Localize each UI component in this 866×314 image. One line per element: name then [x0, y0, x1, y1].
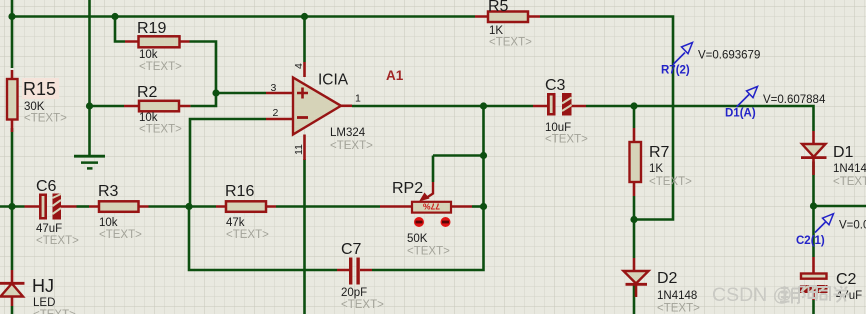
diode D2 [624, 258, 701, 314]
svg-text:<TEXT>: <TEXT> [24, 113, 67, 125]
svg-text:<TEXT>: <TEXT> [489, 37, 532, 49]
wire mid rail left [0, 205, 25, 208]
svg-text:<TEXT>: <TEXT> [649, 176, 692, 188]
svg-text:1N4148: 1N4148 [657, 290, 697, 302]
svg-text:11: 11 [293, 144, 305, 155]
wire R3 right to R16 [149, 205, 217, 208]
svg-text:47uF: 47uF [36, 223, 62, 235]
resistor R7 [630, 128, 693, 196]
svg-text:1N4148: 1N4148 [833, 163, 866, 175]
svg-text:C6: C6 [36, 178, 57, 195]
capacitor C7 [337, 241, 384, 311]
svg-text:10uF: 10uF [545, 122, 571, 134]
svg-text:<TEXT>: <TEXT> [99, 229, 142, 241]
svg-text:V=0.693679: V=0.693679 [698, 50, 760, 62]
wire R7 top [633, 106, 636, 128]
svg-text:<TEXT>: <TEXT> [33, 309, 76, 314]
diode D1 [801, 131, 866, 188]
wire D2 top [633, 220, 636, 259]
wire R2 left [90, 105, 125, 108]
probe C2(1) [796, 214, 866, 247]
probe D1(A) [725, 87, 826, 120]
svg-text:2: 2 [273, 107, 279, 119]
svg-text:C2: C2 [836, 271, 857, 288]
wire RP2 column vertical [372, 106, 484, 270]
node R2 left [86, 102, 93, 109]
capacitor C3 [533, 77, 588, 146]
svg-text:<TEXT>: <TEXT> [833, 176, 866, 188]
wire node right [814, 205, 866, 208]
svg-text:R5: R5 [488, 0, 509, 15]
svg-text:R7: R7 [649, 144, 670, 161]
svg-text:V=0.06: V=0.06 [839, 220, 866, 232]
node wiper [480, 152, 487, 159]
wire ground branch vertical [88, 0, 91, 156]
svg-text:C2(1): C2(1) [796, 235, 825, 247]
svg-text:<TEXT>: <TEXT> [545, 134, 588, 146]
svg-text:D1: D1 [833, 144, 854, 161]
resistor R2 [124, 84, 190, 136]
capacitor C6 [25, 178, 80, 247]
svg-text:R16: R16 [225, 183, 254, 200]
svg-text:3: 3 [271, 82, 277, 94]
svg-text:C3: C3 [545, 77, 566, 94]
LED HJ [0, 270, 76, 314]
node output R7 [630, 102, 637, 109]
resistor R19 [125, 20, 190, 73]
wire wiper link [433, 156, 484, 183]
node pin4 tap [301, 13, 308, 20]
wire left rail [11, 0, 14, 314]
node top-left [8, 13, 15, 20]
svg-text:10k: 10k [139, 112, 158, 124]
wire op-amp pin11 down [303, 159, 306, 314]
probe R7(2) [661, 43, 760, 77]
svg-text:R3: R3 [98, 183, 119, 200]
svg-text:A1: A1 [386, 68, 404, 83]
wire feedback bottom left [189, 207, 337, 271]
node output RP2 [480, 102, 487, 109]
node R19 tap [111, 13, 118, 20]
svg-text:LED: LED [33, 297, 55, 309]
watermark CSDN [712, 284, 849, 306]
svg-text:<TEXT>: <TEXT> [330, 140, 373, 152]
svg-text:RP2: RP2 [392, 180, 423, 197]
svg-text:D2: D2 [657, 270, 678, 287]
svg-text:20pF: 20pF [341, 287, 367, 299]
svg-text:50K: 50K [407, 233, 428, 245]
resistor R5 [475, 0, 540, 49]
svg-text:R2: R2 [137, 84, 158, 101]
svg-text:R15: R15 [23, 79, 56, 99]
wire C2 bottom [812, 300, 815, 314]
wire R19 right to pin3 node [190, 42, 217, 107]
node D1 C2 [810, 202, 817, 209]
svg-text:R19: R19 [137, 20, 166, 37]
node R7 D2 [630, 216, 637, 223]
svg-text:1: 1 [355, 93, 361, 105]
capacitor C2 [800, 257, 862, 302]
svg-text:V=0.607884: V=0.607884 [763, 94, 826, 106]
wire R19 drop [115, 17, 125, 42]
resistor R15 [7, 70, 67, 132]
resistor R16 [216, 183, 276, 241]
svg-text:4: 4 [293, 63, 305, 69]
wire D1 bottom to C2 [812, 162, 815, 258]
potentiometer RP2 [380, 180, 472, 258]
wire pin2 down to mid rail [190, 119, 266, 207]
svg-text:<TEXT>: <TEXT> [407, 246, 450, 258]
svg-text:30K: 30K [24, 101, 45, 113]
svg-text:77%: 77% [423, 202, 440, 212]
svg-text:R7(2): R7(2) [661, 65, 690, 77]
node mid-left [8, 203, 15, 210]
svg-text:1K: 1K [649, 163, 663, 175]
ground [74, 156, 105, 168]
svg-text:<TEXT>: <TEXT> [341, 299, 384, 311]
wire pin3 [216, 92, 266, 95]
svg-text:10k: 10k [139, 49, 158, 61]
svg-text:CSDN @: CSDN @ [712, 284, 792, 306]
node RP2 right [480, 203, 487, 210]
svg-text:C7: C7 [341, 241, 362, 258]
svg-text:<TEXT>: <TEXT> [36, 235, 79, 247]
svg-text:1K: 1K [489, 25, 503, 37]
svg-text:<TEXT>: <TEXT> [226, 229, 269, 241]
wire D2 bottom [633, 285, 636, 314]
svg-text:<TEXT>: <TEXT> [657, 303, 700, 314]
svg-text:HJ: HJ [32, 276, 54, 296]
wire top rail [12, 15, 475, 18]
svg-text:47k: 47k [226, 217, 245, 229]
resistor R3 [89, 183, 149, 241]
node feedback mid [185, 203, 192, 210]
wire R7 bottom [633, 196, 636, 220]
wire R16 right to RP2 [276, 205, 380, 208]
svg-text:<TEXT>: <TEXT> [139, 124, 182, 136]
svg-text:D1(A): D1(A) [725, 108, 756, 120]
wire output rail [352, 105, 533, 108]
wire R5 right to feedback column [540, 17, 673, 220]
wire C6 to R3 [77, 205, 90, 208]
op-amp U1 ICIA LM324 [266, 62, 404, 160]
wire op-amp pin4 up [303, 17, 306, 63]
node pin3 [212, 89, 219, 96]
svg-text:<TEXT>: <TEXT> [139, 61, 182, 73]
svg-text:ICIA: ICIA [318, 72, 349, 89]
wire RP2 right to column [472, 205, 484, 208]
svg-text:10k: 10k [99, 217, 118, 229]
svg-text:LM324: LM324 [330, 127, 366, 139]
